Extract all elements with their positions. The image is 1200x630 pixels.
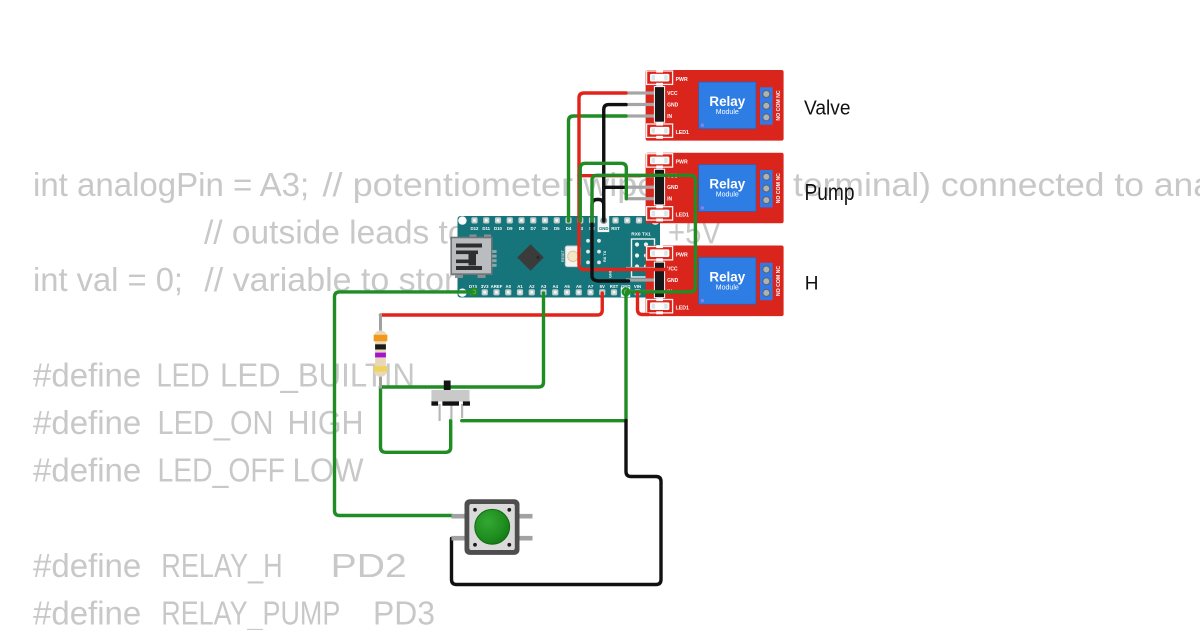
svg-text:#define: #define — [33, 404, 141, 441]
serial header outline — [632, 239, 655, 277]
bottom pin row — [470, 289, 641, 295]
faded background code text — [33, 166, 1200, 630]
svg-text:D10: D10 — [494, 226, 502, 231]
svg-text:RELAY_H: RELAY_H — [161, 547, 282, 584]
pushbutton BTN1 — [452, 499, 533, 555]
svg-text:RELAY_PUMP: RELAY_PUMP — [161, 595, 340, 630]
mcu chip — [517, 244, 544, 271]
wire D3 to Pump IN (green) — [580, 163, 626, 221]
svg-text:RESET: RESET — [561, 249, 565, 262]
svg-text:A5: A5 — [564, 284, 570, 289]
svg-text:AREF: AREF — [491, 284, 503, 289]
svg-text:D8: D8 — [519, 226, 525, 231]
wire resistor bottom to switch middle pin (green) — [381, 387, 451, 452]
svg-text:D7: D7 — [531, 226, 537, 231]
wire red branch to Pump VCC — [579, 174, 640, 177]
svg-text:D5: D5 — [554, 226, 560, 231]
wire 5V to resistor top (red) — [381, 293, 603, 315]
svg-text:H: H — [805, 274, 819, 295]
svg-text:A3: A3 — [541, 284, 547, 289]
usb connector — [470, 235, 477, 239]
svg-text:GND: GND — [599, 226, 609, 231]
wire GND pin down to junction (green) — [624, 295, 627, 420]
bottom pin labels — [469, 284, 641, 289]
svg-text:A2: A2 — [529, 284, 535, 289]
svg-text:A4: A4 — [553, 284, 559, 289]
wire ring at GND pin — [623, 289, 630, 296]
svg-text:A0: A0 — [506, 284, 512, 289]
svg-text:D4: D4 — [566, 226, 572, 231]
svg-text:int val = 0;: int val = 0; — [33, 261, 183, 298]
svg-text:RST: RST — [610, 284, 619, 289]
svg-text:RST: RST — [611, 226, 620, 231]
svg-text:LED_ON: LED_ON — [158, 404, 274, 441]
svg-text:VIN: VIN — [634, 284, 641, 289]
svg-text:#define: #define — [33, 452, 141, 489]
svg-text:RX0 TX1: RX0 TX1 — [631, 232, 651, 238]
svg-text:RX TX: RX TX — [603, 250, 607, 262]
svg-text:Pump: Pump — [805, 179, 855, 205]
wire D2 to H IN to GND pin (green) — [592, 175, 695, 291]
wire Valve VCC chain to H VCC (red) — [579, 93, 667, 270]
resistor R1 — [374, 314, 388, 389]
arduino nano U1 — [451, 216, 660, 298]
svg-text:A6: A6 — [576, 284, 582, 289]
svg-text:#define: #define — [33, 547, 141, 584]
wire D13 to button upper-left pin (green) — [335, 292, 474, 516]
svg-text:LED: LED — [157, 357, 210, 394]
top pin row — [471, 217, 642, 223]
wire GND top to relay H GND (black) — [592, 200, 629, 282]
wire junction to button lower-left pin (black) — [452, 421, 662, 585]
svg-text:Valve: Valve — [804, 98, 851, 120]
svg-text:5V: 5V — [600, 284, 605, 289]
relay module H — [626, 245, 784, 316]
wire VIN stub (red) — [638, 293, 649, 315]
svg-text:3V3: 3V3 — [481, 284, 489, 289]
top pin labels — [471, 226, 621, 231]
mounting holes — [458, 216, 466, 224]
svg-text:PD2: PD2 — [331, 547, 407, 584]
relay module Pump — [626, 152, 784, 223]
wire switch right pin to junction (green) — [462, 419, 626, 422]
svg-text:PD3: PD3 — [373, 595, 435, 630]
svg-text:#define: #define — [33, 357, 141, 394]
wire A3 to resistor bottom (green) — [381, 293, 544, 387]
wire Pump GND branch (black) — [604, 186, 626, 189]
svg-text:D11: D11 — [482, 226, 490, 231]
icsp pins — [586, 239, 601, 264]
svg-text:int analogPin = A3;: int analogPin = A3; — [33, 166, 309, 203]
wire D4 to Valve IN (green) — [569, 116, 627, 221]
svg-text:A1: A1 — [517, 284, 523, 289]
wire Valve GND to Arduino GND top (black) — [604, 105, 626, 221]
svg-text:A7: A7 — [588, 284, 594, 289]
wire ring at D13 pin — [471, 289, 478, 296]
svg-text:#define: #define — [33, 595, 141, 630]
svg-text:D6: D6 — [542, 226, 548, 231]
svg-text:LED_OFF: LED_OFF — [158, 452, 286, 489]
slide switch SW1 — [431, 381, 470, 422]
svg-text:D12: D12 — [471, 226, 479, 231]
svg-text:D9: D9 — [507, 226, 513, 231]
svg-text:LOW: LOW — [293, 452, 365, 489]
svg-text:HIGH: HIGH — [288, 404, 364, 441]
relay module Valve — [626, 70, 784, 141]
